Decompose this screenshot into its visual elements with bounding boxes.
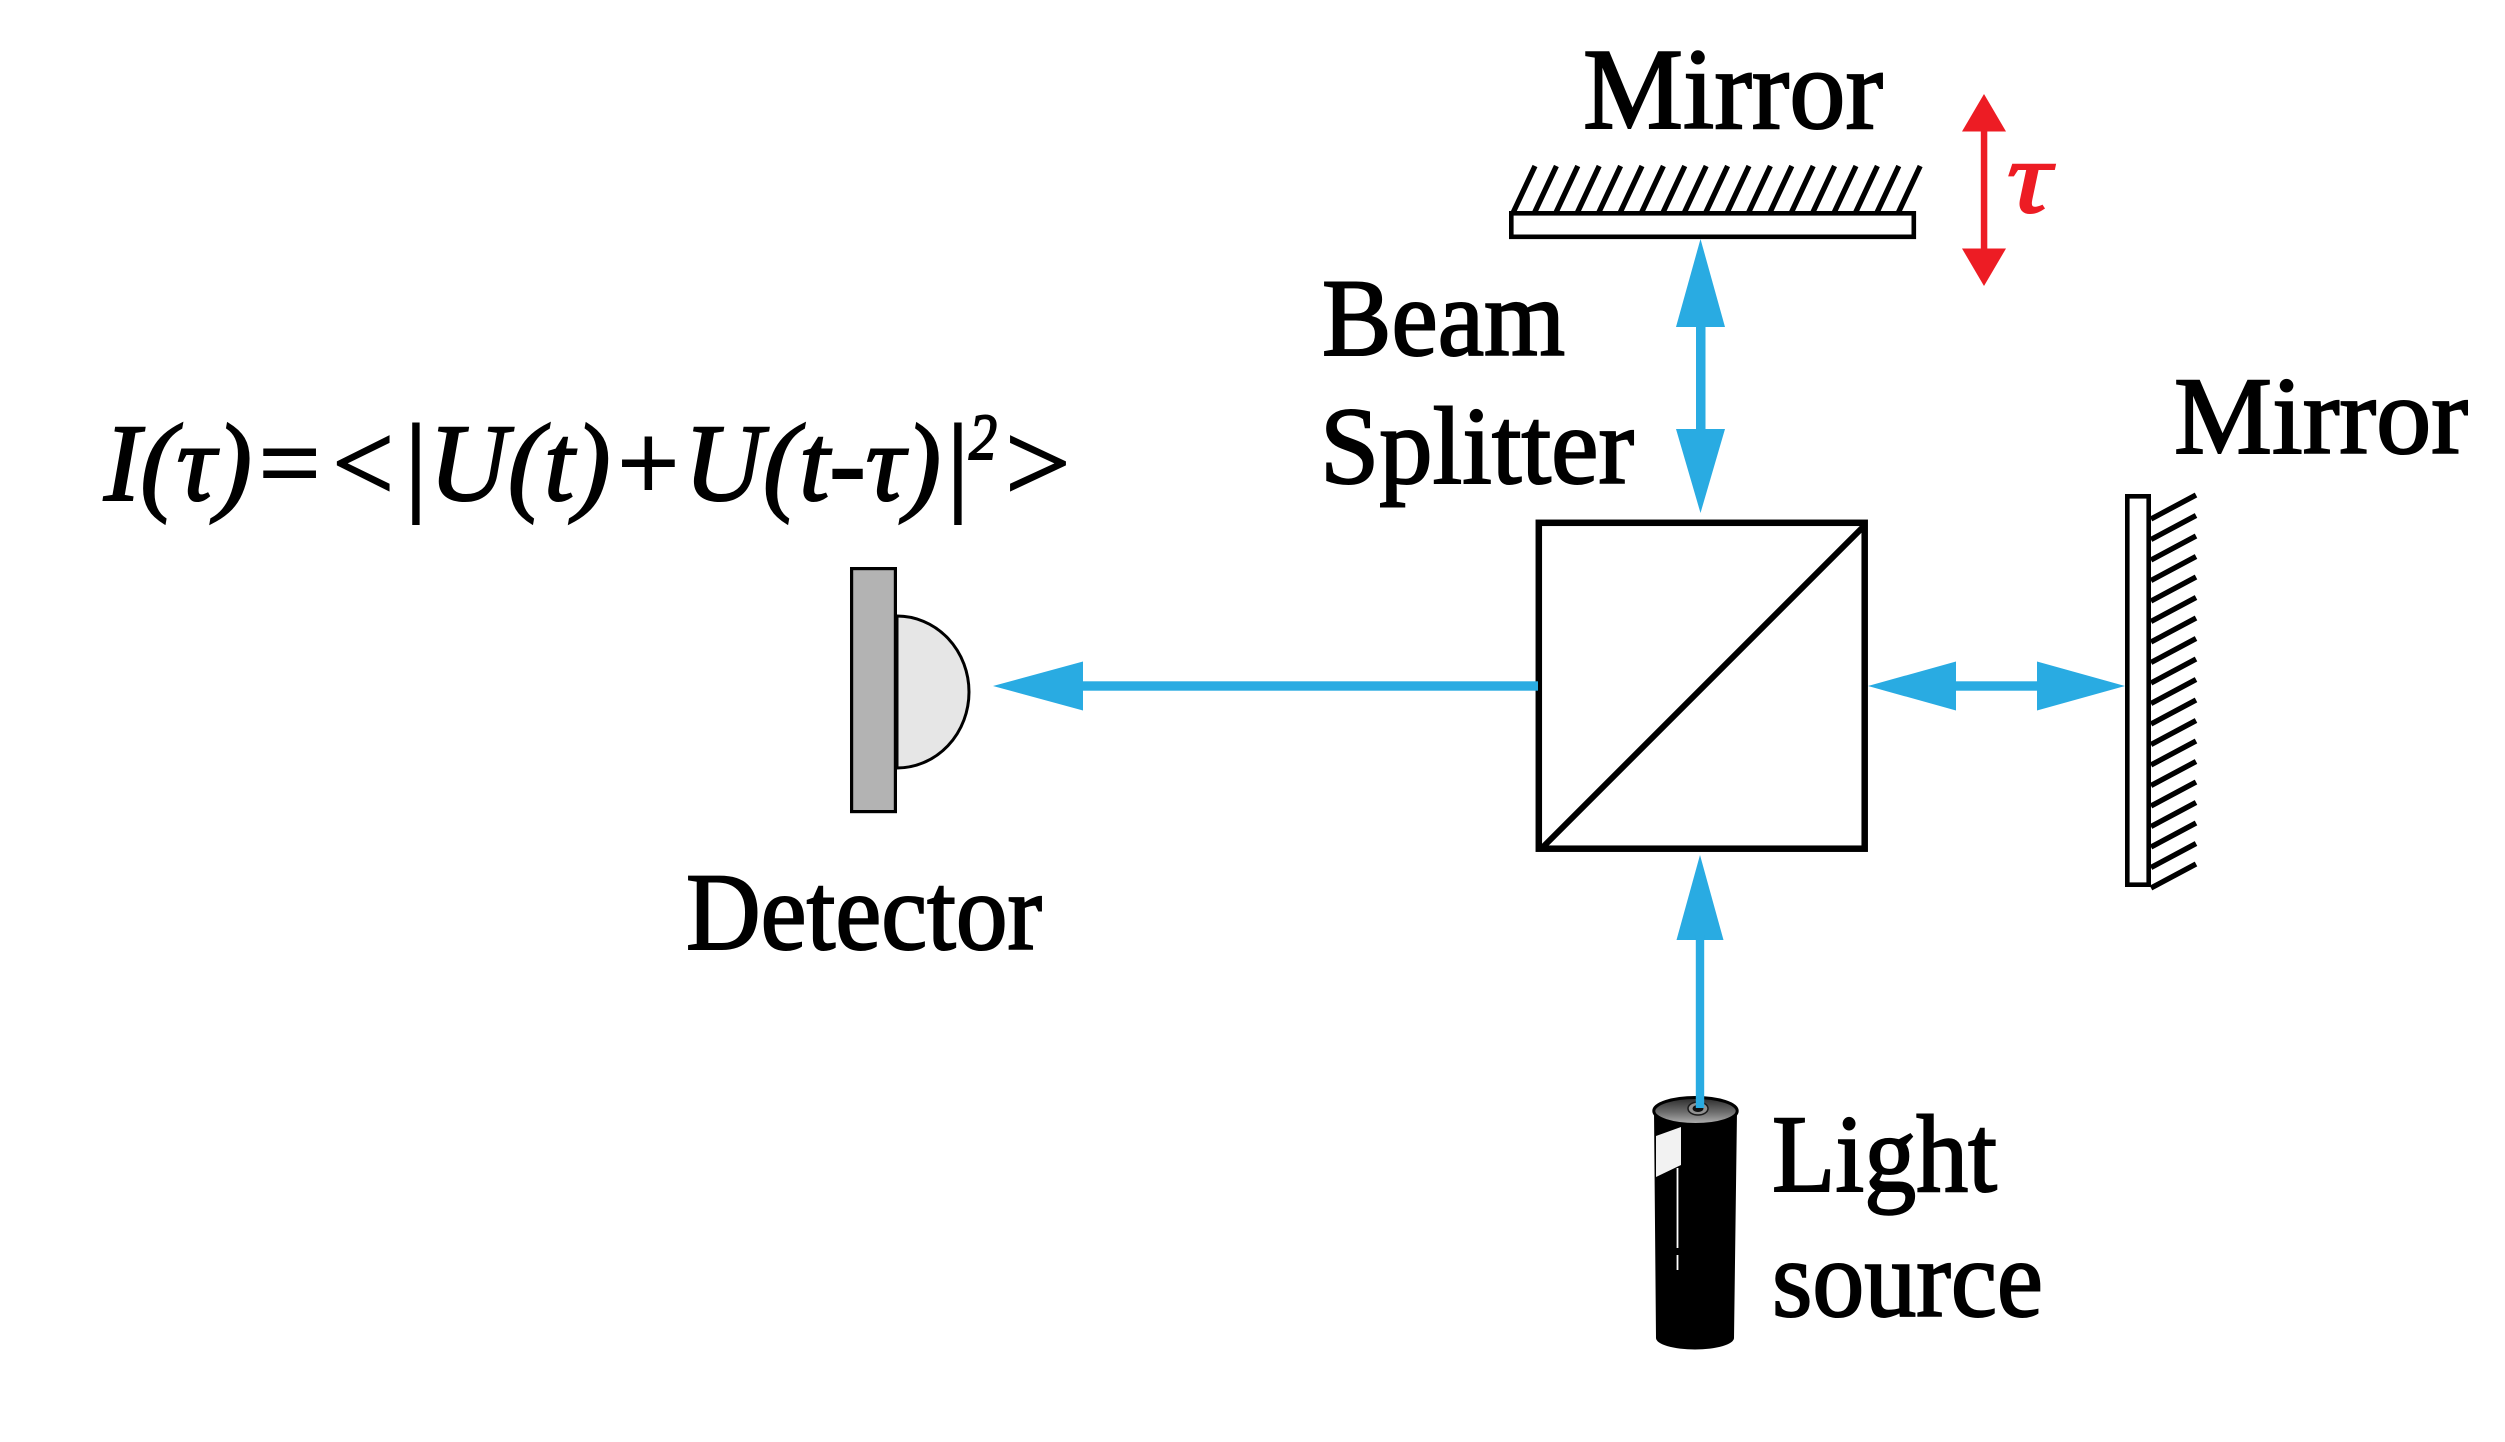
right mirror hatching	[2151, 495, 2196, 888]
top mirror hatching	[1512, 166, 1920, 215]
svg-text:source: source	[1772, 1218, 2043, 1340]
svg-text:Light: Light	[1772, 1093, 1997, 1215]
light source cap	[1654, 1098, 1737, 1125]
svg-text:>: >	[998, 402, 1076, 524]
blue arrow from light source to splitter	[1677, 855, 1724, 1108]
light source aperture ring	[1688, 1102, 1708, 1115]
blue horizontal double arrow (splitter to right mirror)	[1868, 662, 2125, 711]
svg-text:Beam: Beam	[1322, 257, 1565, 379]
light source body	[1654, 1111, 1737, 1350]
light source aperture hole	[1693, 1105, 1704, 1112]
right mirror bar	[2127, 496, 2148, 884]
svg-text:Mirror: Mirror	[2174, 355, 2468, 477]
svg-text:I(τ)=<|U(t)+U(t-τ)|: I(τ)=<|U(t)+U(t-τ)|	[103, 402, 971, 524]
blue vertical double arrow (splitter to top mirror)	[1676, 239, 1725, 513]
label Light source	[1772, 1093, 2043, 1340]
light source highlight band	[1656, 1127, 1681, 1177]
formula I(tau)	[103, 401, 1076, 524]
detector dome	[897, 616, 969, 768]
svg-text:Splitter: Splitter	[1320, 385, 1634, 507]
label Beam Splitter	[1320, 257, 1634, 507]
svg-text:Detector: Detector	[686, 851, 1042, 973]
red delay arrow (double-headed)	[1962, 94, 2006, 286]
blue arrow to detector	[993, 662, 1538, 711]
top mirror bar	[1511, 213, 1914, 237]
light source highlight line	[1677, 1168, 1679, 1248]
svg-text:2: 2	[969, 401, 997, 474]
svg-text:τ: τ	[2007, 121, 2055, 235]
detector body	[852, 569, 896, 812]
beam splitter cube	[1539, 523, 1865, 849]
svg-text:Mirror: Mirror	[1583, 26, 1883, 154]
